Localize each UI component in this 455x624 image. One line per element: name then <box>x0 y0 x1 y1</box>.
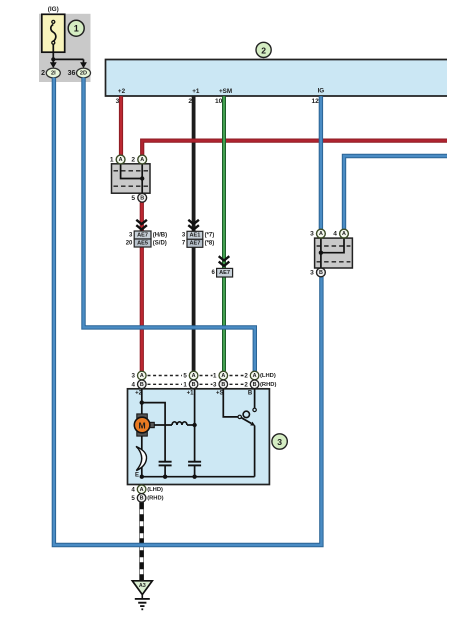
switch contact circle (+S side) <box>238 415 241 418</box>
fuse WIP (IG) <box>42 14 65 52</box>
internal wire branch to capacitor 1 <box>142 403 165 462</box>
svg-text:5: 5 <box>131 195 135 202</box>
svg-text:A: A <box>140 373 144 379</box>
svg-text:B: B <box>253 382 257 388</box>
svg-text:IG: IG <box>318 88 325 95</box>
svg-text:3: 3 <box>182 233 186 239</box>
terminal 3 (B) right connector <box>310 268 325 277</box>
svg-text:AE1: AE1 <box>189 233 200 239</box>
arrowhead to terminal 36 <box>80 62 87 68</box>
wire fuse output to terminals <box>53 44 83 62</box>
svg-text:A: A <box>221 373 225 379</box>
ground symbol A3 <box>132 581 152 610</box>
terminal 5 (B) <box>131 193 146 202</box>
capacitor C1 <box>159 462 172 466</box>
svg-text:B: B <box>140 195 144 201</box>
svg-text:3: 3 <box>310 231 314 238</box>
wiper motor box (component 3) <box>128 389 270 485</box>
motor M <box>134 414 154 436</box>
motor terminal 3(A)/4(B) <box>132 371 147 388</box>
svg-text:(RHD): (RHD) <box>260 382 276 388</box>
chevron arrows on black wire <box>188 220 199 230</box>
motor terminal row A dashes <box>148 375 244 377</box>
svg-text:36: 36 <box>68 70 76 77</box>
wire blue from fuse terminal 2 (2I) to junction connector 3B <box>54 78 322 545</box>
terminal 2 (A) <box>131 155 146 164</box>
svg-text:M: M <box>139 421 146 431</box>
svg-text:(*8): (*8) <box>205 241 215 247</box>
internal wire inductor to +1 node <box>187 424 195 426</box>
svg-text:2: 2 <box>131 157 135 164</box>
svg-text:4: 4 <box>333 231 337 238</box>
junction dot +1/inductor <box>192 423 196 427</box>
capacitor C2 <box>188 462 201 466</box>
flexible drive crescent <box>136 446 147 470</box>
svg-text:A: A <box>342 231 346 237</box>
svg-text:5: 5 <box>183 373 187 380</box>
junction connector A (left, pins 1A/2A/5B) <box>112 164 151 193</box>
svg-text:1: 1 <box>213 373 217 380</box>
svg-text:2: 2 <box>41 70 45 77</box>
motor terminal row B dashes <box>148 383 244 385</box>
wire blue from right edge to junction connector 4A <box>344 156 447 230</box>
svg-text:+1: +1 <box>187 391 195 397</box>
wire blue from fuse terminal 36 (2D) to wiper motor B <box>84 78 255 372</box>
svg-text:B: B <box>192 382 196 388</box>
svg-text:A: A <box>192 373 196 379</box>
terminal 3 (A) right connector <box>310 229 325 238</box>
svg-text:2: 2 <box>261 45 266 55</box>
wire red from ECU pin 3 (+2) down to connector 1A <box>119 96 123 155</box>
svg-text:1: 1 <box>74 24 79 34</box>
svg-text:B: B <box>140 382 144 388</box>
internal wire +2 to motor <box>141 389 143 414</box>
internal wire motor to inductor <box>154 424 173 426</box>
ground bus E <box>142 476 255 478</box>
svg-text:2: 2 <box>244 381 248 388</box>
motor bottom terminal 4(A)(LHD) <box>131 485 163 494</box>
switch contact circle (B side) <box>253 408 256 411</box>
svg-text:6: 6 <box>211 270 215 276</box>
svg-text:+1: +1 <box>192 88 200 95</box>
internal wire motor to E bus <box>141 436 143 477</box>
svg-text:A: A <box>319 231 323 237</box>
motor terminal 5(A)/1(B) <box>183 371 198 388</box>
svg-text:(H/B): (H/B) <box>153 232 167 238</box>
svg-text:3: 3 <box>129 232 133 238</box>
svg-text:3: 3 <box>132 373 136 380</box>
wire red from connector 5B down to wiper motor +2 <box>140 202 144 371</box>
svg-text:1: 1 <box>183 381 187 388</box>
wire green from ECU pin 10 (+SM) down to wiper motor +S <box>222 96 226 371</box>
svg-text:E: E <box>135 472 139 478</box>
svg-text:1: 1 <box>110 157 114 164</box>
svg-text:AE7: AE7 <box>189 241 200 247</box>
internal wire +1 vertical <box>194 389 196 462</box>
svg-text:20: 20 <box>126 240 133 246</box>
inductor L1 <box>172 422 187 425</box>
svg-text:B: B <box>319 270 323 276</box>
svg-text:AE7: AE7 <box>137 232 148 238</box>
svg-text:AE7: AE7 <box>219 270 230 276</box>
terminal 1 (A) <box>110 155 125 164</box>
svg-text:(LHD): (LHD) <box>260 373 276 379</box>
svg-text:A3: A3 <box>139 583 146 589</box>
cam circle <box>243 411 249 417</box>
wire red from connector 2A up and right (output) <box>142 141 447 156</box>
junction connector B (right, pins 3A/4A/3B) <box>315 238 353 268</box>
svg-text:2I: 2I <box>51 70 56 76</box>
svg-text:AE5: AE5 <box>137 240 148 246</box>
svg-text:+S: +S <box>216 391 224 397</box>
connector label AE7 on green wire <box>211 268 232 277</box>
svg-text:(RHD): (RHD) <box>147 495 163 501</box>
chevron arrows on red wire <box>136 220 147 230</box>
svg-text:A: A <box>119 157 123 163</box>
junction block gray housing (component 1) <box>39 14 91 82</box>
motor terminal 1(A)/3(B) <box>213 371 228 388</box>
svg-text:5: 5 <box>131 495 135 502</box>
svg-text:2D: 2D <box>80 70 87 76</box>
internal wire B to switch contact <box>254 389 256 408</box>
svg-text:+SM: +SM <box>219 88 232 95</box>
internal wire +S to switch contact <box>223 389 238 417</box>
internal junction dot +2 branch <box>140 400 144 404</box>
svg-text:3: 3 <box>310 269 314 276</box>
svg-text:(IG): (IG) <box>48 6 59 13</box>
svg-text:2: 2 <box>244 373 248 380</box>
terminal 36 (2D) <box>68 68 91 78</box>
motor bottom terminal 5(B)(RHD) <box>131 494 163 503</box>
wire blue from ECU pin 12 (IG) down to junction connector 3A <box>319 96 323 229</box>
callout circle 3 <box>272 434 287 449</box>
arrowhead to terminal 2 <box>50 62 57 68</box>
svg-text:(S/D): (S/D) <box>153 240 167 246</box>
svg-text:B: B <box>221 382 225 388</box>
ECU box (component 2) <box>106 60 448 97</box>
svg-text:B: B <box>248 391 253 397</box>
svg-text:4: 4 <box>131 486 135 493</box>
svg-text:A: A <box>140 157 144 163</box>
svg-text:(*7): (*7) <box>205 233 215 239</box>
wire black from ECU pin 2 (+1) down to wiper motor +1 <box>192 96 196 371</box>
svg-text:A: A <box>140 487 144 493</box>
connector label AE1/AE7 on black wire <box>182 231 214 247</box>
callout circle 1 <box>68 20 84 36</box>
chevron arrows on green wire <box>219 256 230 266</box>
terminal 4 (A) right connector <box>333 229 348 238</box>
motor terminal 2(A)(LHD)/2(B)(RHD) <box>244 371 276 388</box>
terminal 2 (2I) <box>41 68 60 78</box>
svg-text:12: 12 <box>311 98 319 105</box>
junction dot at fuse output <box>51 57 55 61</box>
svg-text:B: B <box>140 495 144 501</box>
svg-text:3: 3 <box>277 437 282 447</box>
switch arm arrowhead <box>250 422 255 426</box>
svg-text:+2: +2 <box>118 88 126 95</box>
switch arm <box>241 418 251 424</box>
svg-text:10: 10 <box>215 98 223 105</box>
callout circle 2 <box>256 42 271 57</box>
svg-text:3: 3 <box>213 381 217 388</box>
bus junction dots <box>140 475 144 479</box>
internal wire switch to E bus <box>254 426 256 477</box>
svg-text:4: 4 <box>132 381 136 388</box>
svg-text:7: 7 <box>182 241 186 247</box>
svg-text:A: A <box>253 373 257 379</box>
svg-text:(LHD): (LHD) <box>147 487 163 493</box>
connector label AE7/AE5 on red wire <box>126 231 167 247</box>
wire white-black from motor E to ground <box>139 502 143 581</box>
